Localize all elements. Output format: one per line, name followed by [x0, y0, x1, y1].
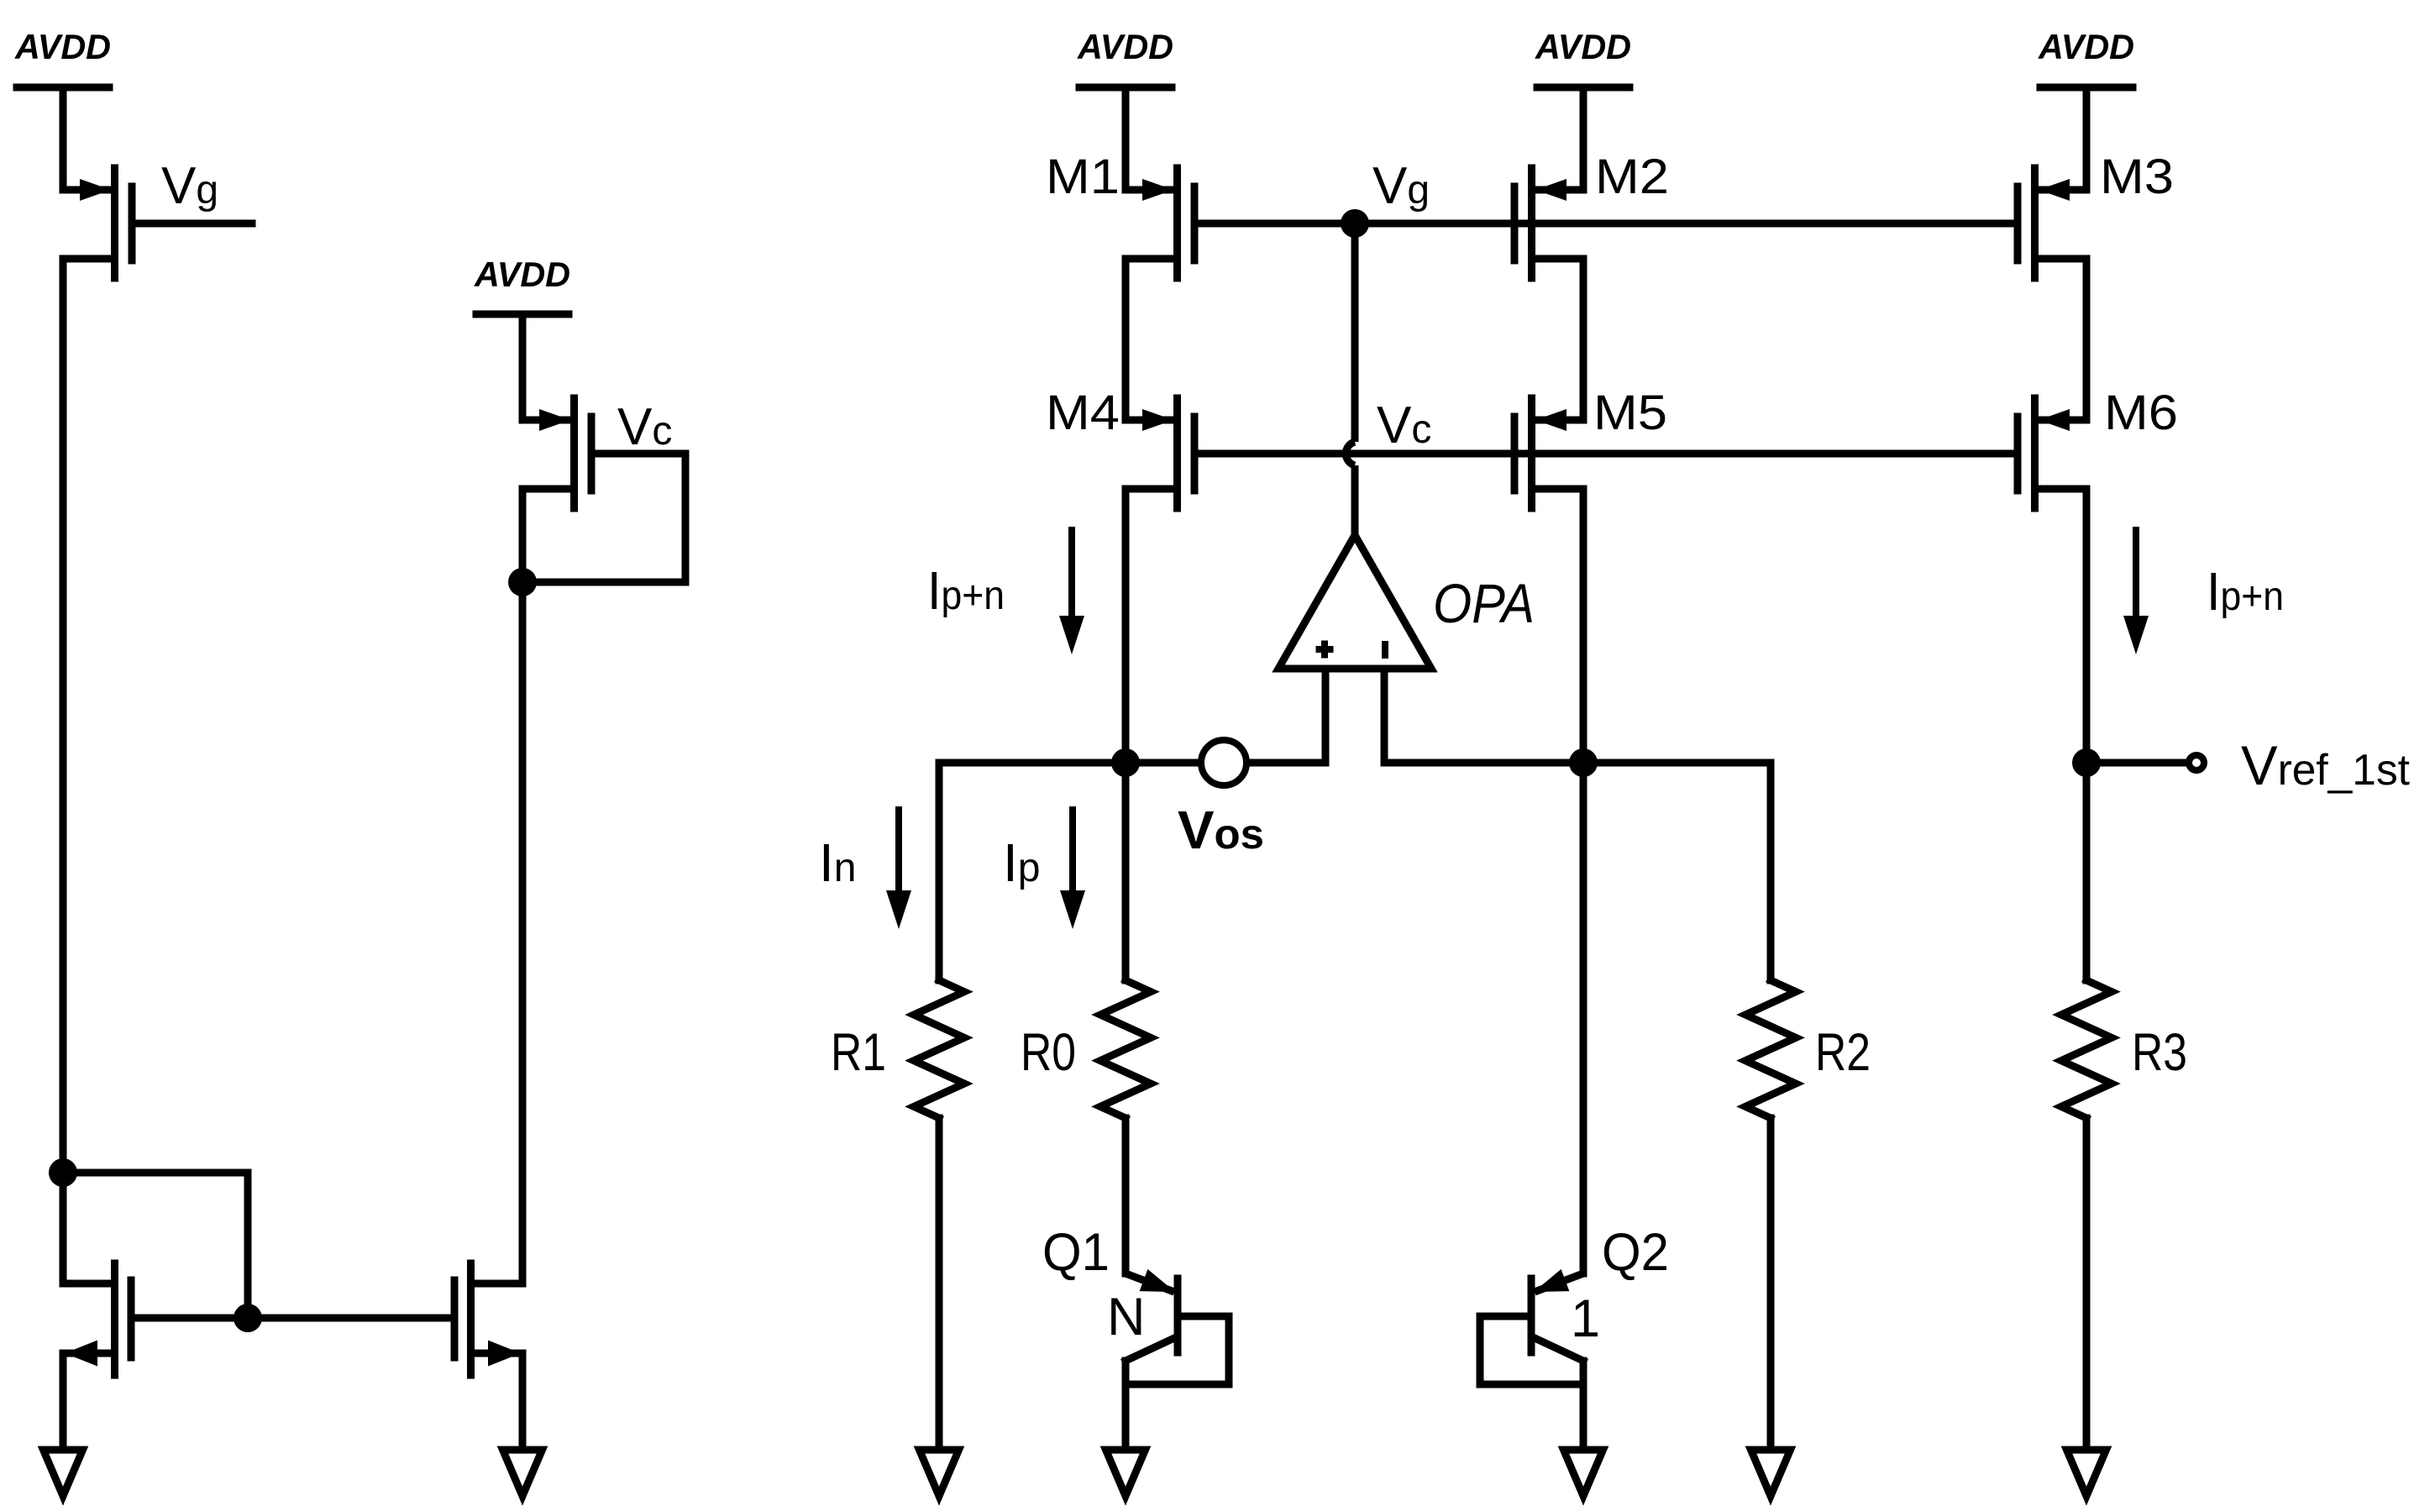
label OPA — [1433, 572, 1535, 634]
svg-text:R2: R2 — [1815, 1023, 1871, 1082]
svg-text:AVDD: AVDD — [474, 255, 570, 294]
wire NMOS left source to ground — [60, 1353, 67, 1454]
wire R2 to ground — [1767, 1118, 1775, 1454]
node junction dot (left diode link) — [49, 1158, 77, 1187]
svg-text:AVDD: AVDD — [2038, 27, 2134, 66]
wire M2 source to M5 drain — [1580, 259, 1587, 420]
transistor PMOS cascode bias (Vc, diode-connected) — [522, 398, 591, 508]
terminal Vref_1st (open circle) — [2189, 755, 2204, 770]
ground symbol (Q2) — [1564, 1450, 1603, 1496]
label Q1 — [1042, 1223, 1110, 1282]
svg-text:OPA: OPA — [1433, 572, 1535, 634]
wire M5 source to node B — [1580, 489, 1587, 763]
transistor M4 (PMOS cascode) — [1126, 398, 1194, 508]
transistor M2 (PMOS mirror) — [1514, 168, 1583, 278]
node junction dot Vref_1st — [2072, 748, 2101, 777]
svg-text:N: N — [1107, 1288, 1146, 1347]
ground symbol (Vc column) — [503, 1450, 543, 1496]
label M1 — [1046, 150, 1120, 204]
wire node B branch down to R2 — [1767, 763, 1775, 980]
label Vg (net) — [1372, 157, 1430, 215]
wire R0 to Q1 emitter — [1122, 1118, 1130, 1273]
wire node B to Q2 emitter — [1580, 763, 1587, 1273]
ground symbol (R3) — [2067, 1450, 2107, 1496]
label Q2 — [1602, 1223, 1669, 1282]
label N (Q1 multiplicity) — [1107, 1288, 1146, 1347]
node junction dot Vc — [508, 568, 537, 596]
node junction dot A — [1111, 748, 1140, 777]
transistor PMOS top-left (gate Vg) — [63, 168, 132, 278]
wire R1 to ground — [936, 1118, 943, 1454]
current arrow Ip+n (right) — [2123, 527, 2149, 654]
wire OPA - corner to node B and R2 — [1384, 759, 1771, 767]
label M5 — [1593, 386, 1667, 440]
ground symbol (R2) — [1751, 1450, 1791, 1496]
power symbol AVDD (M2) — [1535, 27, 1631, 190]
wire M4 source to node A — [1122, 489, 1130, 763]
svg-text:M2: M2 — [1595, 150, 1669, 204]
current arrow Ip+n (left) — [1059, 527, 1084, 654]
wire Vos to OPA + corner — [1249, 759, 1325, 767]
transistor M1 (PMOS mirror) — [1126, 168, 1194, 278]
op-amp OPA (triangle, output up) — [1278, 535, 1431, 669]
wire NMOS gate link — [134, 1315, 450, 1322]
svg-text:M1: M1 — [1046, 150, 1120, 204]
node junction dot B — [1569, 748, 1598, 777]
resistor R0 — [1100, 980, 1151, 1118]
label Vos — [1178, 800, 1264, 860]
transistor M5 (PMOS cascode) — [1514, 398, 1583, 508]
label Ip+n (left) — [927, 560, 1005, 621]
svg-text:M6: M6 — [2104, 386, 2178, 440]
label Vref_1st — [2241, 734, 2411, 796]
label M2 — [1595, 150, 1669, 204]
svg-text:R0: R0 — [1021, 1023, 1076, 1082]
transistor Q2 (PNP, diode-connected) — [1480, 1269, 1583, 1454]
svg-text:1: 1 — [1571, 1289, 1600, 1348]
wire OPA + input lead — [1322, 669, 1330, 763]
label Ip+n (right) — [2207, 561, 2284, 622]
label 1 (Q2 multiplicity) — [1571, 1289, 1600, 1348]
wire M3 source to M6 drain — [2083, 259, 2091, 420]
wire net Vg (gate line M1-M2-M3) — [1198, 220, 2017, 228]
wire OPA - input lead — [1381, 669, 1388, 763]
svg-text:Q1: Q1 — [1042, 1223, 1110, 1282]
wire node A to R0 — [1122, 763, 1130, 980]
wire node A horizontal (R1 tap to Vos) — [939, 759, 1198, 767]
wire Vc source drop — [519, 489, 527, 582]
transistor M3 (PMOS mirror) — [2018, 168, 2086, 278]
label R0 — [1021, 1023, 1076, 1082]
label M4 — [1046, 386, 1120, 440]
svg-text:Q2: Q2 — [1602, 1223, 1669, 1282]
svg-text:M3: M3 — [2100, 150, 2174, 204]
label R2 — [1815, 1023, 1871, 1082]
resistor R3 — [2061, 980, 2112, 1118]
wire Vc gate wrap (diode connection) — [522, 454, 685, 582]
svg-text:AVDD: AVDD — [1077, 27, 1173, 66]
svg-text:M4: M4 — [1046, 386, 1120, 440]
wire R3 to ground — [2083, 1118, 2091, 1454]
power symbol AVDD (left bias, top) — [14, 27, 111, 190]
transistor M6 (PMOS cascode) — [2018, 398, 2086, 508]
label Vc (net) — [1377, 396, 1431, 454]
wire left column to NMOS drain — [60, 1173, 67, 1284]
node junction dot (NMOS gate line) — [234, 1304, 262, 1332]
label M6 — [2104, 386, 2178, 440]
power symbol AVDD (Vc branch) — [474, 255, 570, 420]
svg-text:R3: R3 — [2132, 1023, 2187, 1082]
svg-text:AVDD: AVDD — [14, 27, 111, 66]
label M3 — [2100, 150, 2174, 204]
transistor NMOS mirror right — [454, 1263, 522, 1375]
transistor Q1 (PNP, diode-connected) — [1126, 1269, 1229, 1454]
svg-text:R1: R1 — [831, 1023, 886, 1082]
resistor R2 — [1745, 980, 1796, 1118]
wire M6 source to Vref node and R3 — [2083, 489, 2091, 980]
resistor R1 — [914, 980, 964, 1118]
label R1 — [831, 1023, 886, 1082]
ground symbol (left bias column) — [44, 1450, 83, 1496]
ground symbol (R1) — [920, 1450, 959, 1496]
wire top-left gate lead — [135, 220, 252, 228]
label R3 — [2132, 1023, 2187, 1082]
node junction dot Vg — [1341, 209, 1369, 238]
wire M1 source to M4 drain — [1122, 259, 1130, 420]
label In — [819, 832, 856, 893]
wire OPA output to Vg with hop over Vc — [1346, 223, 1355, 535]
wire Vc column down to NMOS mirror — [519, 582, 527, 1284]
wire PMOS source drop (left bias column) — [60, 259, 67, 1173]
wire diode link to NMOS gates — [63, 1173, 248, 1318]
label Vg (top-left gate) — [161, 157, 218, 215]
power symbol AVDD (M3) — [2038, 27, 2134, 190]
svg-text:AVDD: AVDD — [1535, 27, 1631, 66]
label Ip — [1003, 832, 1040, 893]
label Vc (bias branch) — [617, 398, 672, 456]
transistor NMOS mirror left (diode-connected) — [63, 1263, 131, 1375]
wire NMOS right source to ground — [519, 1353, 527, 1454]
ground symbol (Q1) — [1106, 1450, 1146, 1496]
wire node A to R1 — [936, 763, 943, 980]
wire net Vc (gate line M4-M5-M6) — [1198, 450, 2017, 458]
svg-text:M5: M5 — [1593, 386, 1667, 440]
voltage source Vos (offset, circle) — [1201, 740, 1246, 785]
current arrow In — [886, 806, 911, 929]
power symbol AVDD (M1) — [1077, 27, 1173, 190]
wire Vref tap — [2086, 759, 2186, 767]
current arrow Ip — [1060, 806, 1085, 929]
